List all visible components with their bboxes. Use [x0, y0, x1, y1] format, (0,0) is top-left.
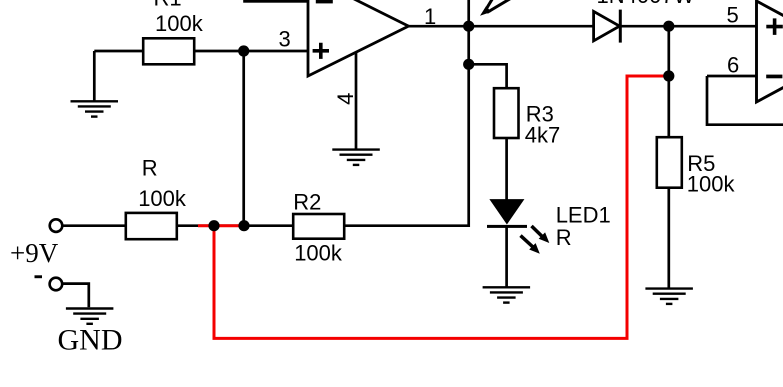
- op-amp U2 minus input symbol: [766, 75, 782, 79]
- wire op-amp U1 pin 4 to ground: [355, 52, 358, 149]
- svg-text:5: 5: [727, 2, 739, 27]
- op-amp U2: [757, 1, 783, 102]
- wire +9V terminal to R: [63, 224, 127, 227]
- svg-text:100k: 100k: [138, 186, 187, 211]
- op-amp U1: [308, 0, 409, 76]
- wire op-amp U2 pin 6: [707, 75, 757, 78]
- resistor R5: [657, 137, 682, 188]
- resistor R1: [143, 38, 194, 64]
- resistor R2: [293, 214, 344, 239]
- diode D1 cathode bar: [619, 10, 622, 43]
- wire R3 to LED: [505, 137, 508, 201]
- node junction dot at U1 output: [463, 21, 474, 32]
- wire vertical from top edge through output node down to bottom rail then left to R2: [344, 0, 469, 226]
- op-amp U2 plus input symbol: [766, 18, 783, 35]
- wire U2 feedback loop: [707, 76, 783, 125]
- svg-text:3: 3: [279, 27, 291, 52]
- op-amp U1 plus input symbol: [313, 43, 329, 59]
- terminal GND circle: [50, 278, 63, 291]
- svg-text:LED1: LED1: [556, 202, 611, 227]
- svg-text:100k: 100k: [687, 172, 736, 197]
- svg-text:GND: GND: [58, 324, 123, 357]
- wire LED cathode to ground: [505, 227, 508, 287]
- ground symbol G5 (GND terminal): [66, 309, 114, 324]
- resistor R: [126, 213, 177, 239]
- svg-text:6: 6: [727, 53, 739, 78]
- svg-text:4k7: 4k7: [525, 122, 560, 147]
- LED1 light arrow lower: [521, 236, 540, 254]
- svg-text:R1: R1: [154, 0, 182, 11]
- svg-text:R: R: [142, 156, 158, 181]
- op-amp U1 minus input symbol (cut at top): [316, 0, 333, 3]
- wire GND terminal to ground: [63, 284, 89, 308]
- node junction dot after diode: [663, 21, 674, 32]
- diode D1 1N4007W: [594, 11, 620, 40]
- red net wire (bottom loop): [198, 76, 669, 338]
- LED1 light arrow upper: [532, 226, 550, 243]
- svg-text:100k: 100k: [155, 11, 204, 36]
- svg-text:+9V: +9V: [10, 238, 59, 268]
- svg-text:1N4007W: 1N4007W: [597, 0, 695, 8]
- wire node down to R5: [667, 26, 670, 138]
- resistor R3: [494, 88, 519, 138]
- light arrow into node (cut at top): [480, 0, 511, 16]
- svg-text:4: 4: [333, 93, 358, 105]
- ground symbol G4 (below R5): [645, 289, 693, 304]
- node junction dot at R3 branch: [463, 59, 474, 70]
- ground symbol G3 (below LED1): [483, 287, 530, 302]
- node junction dot at R1 / pin3: [238, 45, 249, 56]
- wire R to R2: [176, 224, 294, 227]
- LED1 cathode bar: [487, 225, 527, 228]
- wire ground branch left of R1: [94, 51, 144, 101]
- wire branch to R3: [469, 64, 507, 89]
- node junction dot at red wire / R5: [663, 70, 674, 81]
- wire op-amp U1 output to diode: [408, 25, 594, 28]
- wire R5 to ground: [667, 188, 670, 288]
- ground symbol G1 (left of R1): [71, 101, 119, 116]
- svg-text:100k: 100k: [294, 241, 343, 266]
- terminal +9V circle: [50, 219, 63, 232]
- svg-text:1: 1: [424, 4, 436, 29]
- minus dash at GND terminal: [35, 275, 43, 278]
- wire feedback vertical node to bottom rail: [242, 51, 245, 226]
- LED1 triangle: [491, 200, 523, 223]
- node junction dot at feedback / bottom rail: [238, 220, 249, 231]
- wire pin2 inverting input stub (cut at top): [243, 0, 308, 3]
- node junction dot at red wire bottom rail left: [208, 220, 219, 231]
- ground symbol G2 (op-amp U1 pin 4): [332, 150, 380, 165]
- svg-text:R: R: [556, 225, 572, 250]
- wire R1 right to op-amp pin 3: [194, 50, 308, 53]
- svg-text:R2: R2: [293, 190, 321, 215]
- wire diode cathode to op-amp U2 pin 5: [620, 25, 756, 28]
